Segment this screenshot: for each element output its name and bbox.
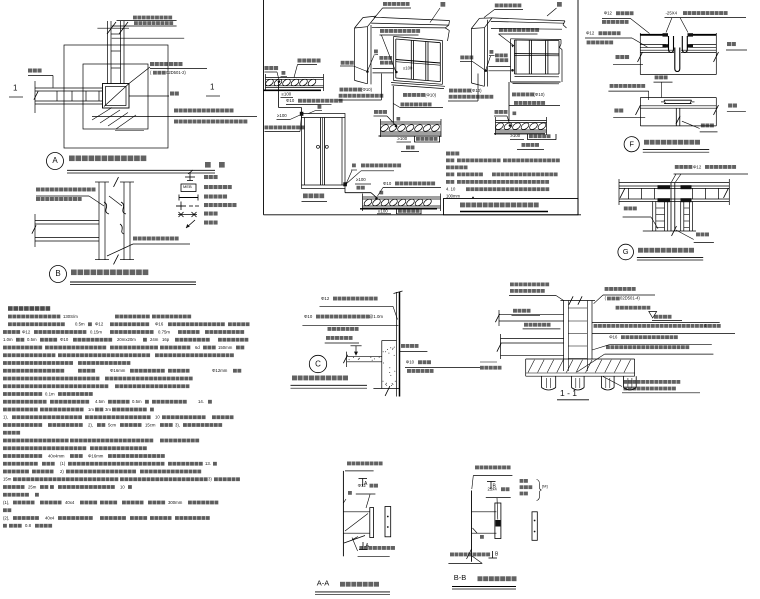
B-B free plate [532, 512, 537, 541]
1-1 label note3 [606, 345, 610, 349]
detail A outer foundation rectangle [64, 45, 168, 148]
svg-text:Φ12: Φ12 [586, 31, 595, 36]
B-B weld label [480, 535, 484, 539]
A-A title double underline [315, 591, 390, 593]
label weld w1 [374, 50, 378, 54]
svg-text:A-A: A-A [317, 579, 330, 588]
detail A hatch lines below column [92, 108, 112, 121]
window2 frame inner [515, 39, 560, 42]
F top: parapet slab edges [639, 33, 641, 75]
svg-text:Φ10: Φ10 [383, 181, 392, 186]
G beam end ticks [618, 179, 620, 205]
detail B rebar hooks [104, 202, 109, 214]
mid-left beam wall line [379, 135, 442, 137]
G beam rails [619, 185, 729, 187]
svg-text:MEB: MEB [183, 184, 192, 189]
right-mid ring beam ellipses [494, 122, 504, 131]
svg-text:6d: 6d [195, 345, 200, 350]
label method2 w2 line2 [514, 101, 518, 105]
window2 mullions [528, 40, 530, 74]
legend test point symbol [189, 172, 191, 181]
title box text: metal door/window equipotential detail [460, 203, 465, 208]
svg-text:100mm: 100mm [446, 193, 460, 198]
title circle A [47, 153, 64, 170]
label roof surface [614, 109, 618, 113]
svg-text:13.: 13. [205, 461, 211, 466]
detail A beam left end tick [34, 81, 36, 113]
svg-text:4.5m: 4.5m [95, 399, 105, 404]
label weld left beam [282, 71, 286, 75]
lower-right beam node dot [375, 197, 378, 200]
window1 mid rail [396, 60, 441, 64]
C title circle [309, 355, 326, 372]
C title text [292, 376, 297, 381]
svg-text:20mx20m: 20mx20m [117, 337, 136, 342]
F top: lower deep U loop [675, 48, 680, 72]
window1 column top slant [355, 18, 364, 29]
legend row4 text [204, 203, 208, 207]
svg-text:Φ10: Φ10 [60, 337, 69, 342]
G joint gap verticals [670, 183, 672, 232]
detail A ladder break slashes [107, 22, 116, 34]
mid-left ring beam ellipses [379, 123, 389, 132]
svg-text:3m: 3m [105, 407, 111, 412]
label expansion joint F [701, 124, 705, 128]
label cushion layer [170, 92, 174, 96]
frame notes title [446, 152, 450, 156]
F bottom: cover plate [664, 99, 692, 101]
G title text [638, 248, 643, 253]
label method1 w2 line2 [449, 95, 453, 99]
B-B title double underline [452, 586, 516, 588]
detail A top label line2 [134, 21, 138, 25]
window2 lintel lines [492, 18, 565, 21]
svg-text:Φ12: Φ12 [604, 11, 613, 16]
window2 sill lines [515, 76, 560, 78]
B-B bracket lines [472, 511, 497, 513]
1-1 right ground line [592, 322, 720, 324]
svg-text:(1),: (1), [3, 500, 9, 505]
C bottom break slash [385, 386, 390, 396]
svg-text:Φ12: Φ12 [693, 164, 702, 169]
mid-left beam end ticks [380, 119, 382, 137]
metal door outer frame [302, 114, 346, 189]
G left column below [652, 202, 654, 232]
detail B column rails [98, 182, 100, 260]
F bottom: break slashes [636, 105, 641, 115]
title B double underline [70, 281, 196, 283]
1-1 label bottom line2 [624, 387, 628, 391]
B-B wall bottom diagonal [467, 549, 472, 559]
svg-text:Φ10: Φ10 [304, 314, 313, 319]
svg-text:Φ16: Φ16 [155, 322, 164, 327]
legend row1 text [204, 175, 208, 179]
frame notes line4 [446, 180, 450, 184]
legend title [205, 162, 211, 168]
middle frame right border [577, 0, 579, 215]
svg-text:300mm: 300mm [168, 500, 183, 505]
svg-text:0.75m: 0.75m [158, 329, 170, 334]
right-mid ring beam rails [496, 120, 547, 122]
svg-text:(1): (1) [60, 461, 66, 466]
title A text [69, 156, 75, 162]
A-A bracket diagonal [345, 514, 368, 532]
svg-text:≥100: ≥100 [277, 113, 287, 118]
metal door inner lines [302, 117, 346, 119]
detail A foundation beam ladder rails [35, 87, 103, 89]
svg-text:16p: 16p [162, 337, 170, 342]
B-B right stacked labels [520, 479, 524, 483]
svg-text:1),: 1), [3, 415, 8, 420]
label concrete block right-mid [527, 134, 529, 140]
svg-text:10: 10 [155, 415, 160, 420]
G title circle [618, 244, 634, 260]
1-1 column rungs [568, 307, 587, 309]
window2 mid rail [515, 53, 560, 55]
detail A ladder rungs [111, 33, 121, 35]
label weld w2 [490, 50, 494, 54]
1-1 label long note1 [594, 324, 598, 328]
svg-text:15m: 15m [3, 477, 12, 482]
C concrete speckles [390, 375, 391, 376]
A-A bracket lines [343, 511, 370, 513]
svg-text:(Φ10): (Φ10) [471, 88, 483, 93]
svg-text:A: A [52, 156, 58, 165]
label weld mid-left [397, 117, 401, 121]
svg-text:(2),: (2), [3, 515, 9, 520]
label window frame connection w2 [499, 28, 503, 32]
detail B beam rails [35, 220, 99, 222]
window1 lintel right end break [445, 25, 449, 28]
lower-right ring beam rails [363, 196, 441, 198]
C wall top tick [394, 291, 403, 294]
window1 node dots [366, 70, 369, 73]
frame notes line2 [446, 166, 450, 170]
svg-text:0.5m: 0.5m [132, 399, 142, 404]
G label foundation beam [624, 207, 628, 211]
window1 lintel lines [374, 17, 450, 20]
title B text [71, 270, 77, 276]
B-B section mark bottom [489, 557, 498, 559]
detail A leader line y38 [112, 37, 185, 39]
door bottom-right weld node [343, 182, 347, 186]
svg-text:Φ12mm: Φ12mm [212, 368, 228, 373]
G bottom line [643, 230, 696, 232]
F bottom: joint gap lines [675, 108, 677, 126]
B-B free plate dots [534, 520, 536, 522]
window1 frame outer [394, 37, 443, 41]
left ring beam end ticks [265, 74, 267, 91]
svg-text:(Φ10): (Φ10) [534, 92, 546, 97]
svg-text:(Φ10): (Φ10) [361, 87, 373, 92]
detail A foundation beam rungs [56, 91, 58, 101]
title A double underline [67, 169, 215, 171]
detail B leader diagonals to hooks [89, 196, 104, 206]
svg-text:Φ10: Φ10 [406, 360, 415, 365]
svg-text:4. 10: 4. 10 [446, 186, 456, 191]
method1 w2 leader [448, 100, 478, 102]
legend MEB box symbol [181, 184, 196, 192]
label lightning to metal door connection [265, 126, 269, 130]
C slab lines [347, 355, 382, 357]
svg-text:[M]: [M] [542, 483, 548, 488]
label window w1 [441, 2, 446, 7]
svg-text:Φ10: Φ10 [286, 98, 295, 103]
svg-text:25x4: 25x4 [488, 487, 498, 492]
lower-right beam thick line [360, 208, 437, 210]
G label reserved joint [696, 233, 700, 237]
G right column below [680, 202, 682, 232]
label grounding wire left beam [265, 66, 269, 70]
svg-text:B: B [55, 269, 60, 278]
label method2 line1 [403, 93, 407, 97]
legend row5 text [204, 212, 208, 216]
1-1 label project datum [616, 306, 620, 310]
label indoor ground [513, 309, 517, 313]
method1 w1 leader [338, 99, 381, 101]
label diagonal rebar down conductor note [174, 109, 178, 113]
G column rungs [656, 207, 665, 209]
F bottom: slab lines [640, 97, 716, 99]
label weld lower beam [380, 191, 384, 195]
label reserved grounding terminal board [150, 62, 154, 66]
A-A label elevation of plate [347, 462, 351, 466]
middle frame left border [263, 0, 265, 215]
window2 column front face [470, 29, 472, 84]
detail B label top-left line2 [36, 197, 40, 201]
label F concealed line2 [587, 41, 591, 45]
frame notes line1 [446, 159, 450, 163]
detail A column section inner square [106, 87, 127, 106]
left beam node dot [278, 80, 281, 83]
window2 down leader [508, 82, 510, 121]
C label4 [326, 336, 330, 340]
svg-text:0.5m: 0.5m [27, 337, 37, 342]
label bottom slab rebar [524, 323, 528, 327]
F title text [644, 140, 649, 145]
svg-text:0.15m: 0.15m [90, 329, 102, 334]
window1 frame inner [396, 39, 441, 43]
svg-text:150mm: 150mm [218, 345, 233, 350]
detail A top label line1 [133, 16, 137, 20]
label plan view F [727, 42, 731, 46]
B-B wall vertical [471, 491, 473, 562]
B-B label protection layer bottom [450, 553, 454, 557]
label parapet F top [616, 55, 620, 59]
label grounding lead-out left [480, 366, 484, 370]
left ring beam rails [266, 77, 324, 79]
label weld right-mid [513, 112, 517, 116]
B-B flat steel black square [495, 520, 500, 527]
lower-right beam end ticks [362, 194, 364, 212]
door top-left weld node [300, 112, 304, 116]
label to embed parts w2 [495, 54, 499, 58]
1-1 footing inner line [526, 372, 635, 374]
metal door center mullion [320, 118, 322, 186]
window1 down leader [392, 86, 394, 122]
A-A free plate dots [387, 516, 389, 518]
F top: break slashes [638, 52, 643, 62]
svg-text:(Φ10): (Φ10) [425, 92, 437, 97]
svg-text:1: 1 [210, 83, 215, 92]
window2 node dots [485, 69, 488, 72]
label rc wall w2 [495, 4, 499, 8]
label grounding point w2 [460, 56, 464, 60]
label concrete block lower [396, 209, 398, 215]
svg-text:B-B: B-B [454, 573, 467, 582]
label parapet F bottom [655, 76, 659, 80]
svg-text:≥100: ≥100 [282, 92, 292, 97]
svg-text:3),: 3), [175, 422, 180, 427]
svg-text:≥100: ≥100 [378, 208, 388, 213]
1-1 left slab (indoor floor) [499, 314, 564, 316]
svg-text:15cm: 15cm [145, 422, 156, 427]
F top: parapet bottom line [640, 74, 716, 76]
svg-text:2),: 2), [88, 422, 93, 427]
label method1 w2 line1 [449, 89, 453, 93]
window1 slab to column [373, 68, 394, 70]
detail B label top-left line1 [36, 188, 40, 192]
svg-text:1m: 1m [88, 407, 94, 412]
svg-text:Φ16: Φ16 [609, 334, 618, 339]
G beam top cap line [619, 182, 729, 184]
detail A ladder top cap line [97, 27, 129, 29]
svg-text:14.: 14. [198, 399, 204, 404]
F bottom: side edges [639, 98, 641, 126]
F top: slab lines [640, 44, 666, 46]
construction notes title [8, 306, 13, 311]
svg-text:3): 3) [208, 477, 212, 482]
F title double underline [643, 149, 709, 151]
window2 column top slant [471, 18, 479, 28]
detail A column section outer square [103, 84, 130, 109]
svg-text:F: F [629, 139, 634, 148]
label method1 w1 line2 [339, 94, 343, 98]
legend row3 text [204, 195, 208, 199]
A-A wall vertical [342, 471, 344, 556]
C label5 clamp [401, 344, 405, 348]
svg-text:G: G [623, 247, 629, 256]
window2 wall corner edge [486, 20, 488, 87]
window2 lintel right break [563, 21, 565, 25]
window2 slab to column [489, 66, 511, 68]
svg-text:1 - 1: 1 - 1 [560, 388, 577, 398]
detail B label right [133, 237, 137, 241]
svg-text:1: 1 [13, 84, 18, 93]
door to lower beam connection path [344, 189, 346, 193]
svg-text:2): 2) [60, 469, 64, 474]
1-1 column top cap [560, 300, 595, 302]
label joint fill [357, 186, 361, 190]
legend air-termination rod symbol [186, 220, 195, 228]
left ring beam wall line thick [264, 89, 322, 91]
svg-text:-25X4: -25X4 [666, 10, 678, 15]
right-mid beam wall line [494, 133, 545, 135]
label brick wall [406, 146, 410, 150]
left ring beam rebar ellipses [264, 78, 274, 87]
legend row2 text [204, 185, 208, 189]
1-1 label top-left line2 [510, 289, 514, 293]
B-B section mark top [487, 481, 496, 483]
B-B label main rebar [475, 466, 479, 470]
label corner detail [522, 143, 526, 147]
svg-text:0.1m: 0.1m [45, 391, 55, 396]
title box rectangle [444, 199, 579, 215]
label method2 line2 [401, 103, 405, 107]
label outdoor ground [654, 315, 658, 319]
mid-left beam node dot [395, 125, 398, 128]
notes body lines [8, 315, 12, 319]
window1 sill lines [391, 83, 445, 87]
F bottom: wall bottom line [640, 125, 716, 127]
1-1 level mark triangle [649, 312, 657, 319]
svg-text:≥100: ≥100 [403, 65, 413, 70]
1-1 column rails [563, 301, 565, 372]
lower-right ring beam ellipses [363, 198, 373, 207]
label weld at door bottom [352, 164, 356, 168]
right-mid beam node dot [509, 124, 512, 127]
svg-text:25m: 25m [28, 484, 37, 489]
label to embed parts w1 [379, 56, 383, 60]
detail A diagonal through column square [104, 84, 129, 107]
detail A column rebar ladder vertical rails [107, 21, 109, 84]
detail B beam left tick [34, 214, 36, 247]
window1 wall corner edge [370, 25, 372, 84]
label method2 w2 line1 [512, 93, 516, 97]
G beam end slashes [620, 188, 625, 198]
label grounding point w1 [341, 61, 345, 65]
1-1 label top-left line1 [510, 283, 514, 287]
svg-text:40x4mm: 40x4mm [48, 453, 65, 458]
label window frame to equalizing ring w1 [380, 29, 384, 33]
C label3 [328, 327, 332, 331]
right-mid beam end ticks [495, 117, 497, 135]
F top: air-termination thick line [640, 34, 666, 36]
C wall bottom edge [373, 388, 399, 390]
mid-left ring beam rails [381, 121, 442, 123]
label exposed/concealed strip [610, 84, 614, 88]
label grounding wire mid-left [374, 110, 378, 114]
svg-text:1.0m: 1.0m [3, 337, 13, 342]
C parapet concrete outline [382, 340, 397, 342]
label lightning-door connection bottom [361, 164, 365, 168]
svg-text:0.8: 0.8 [25, 523, 32, 528]
svg-text:Φ12: Φ12 [22, 329, 31, 334]
1-1 piles [541, 376, 543, 387]
svg-text:Φ16mm: Φ16mm [110, 368, 126, 373]
svg-text:02D501-2): 02D501-2) [166, 70, 186, 75]
A-A section mark bottom [359, 549, 368, 551]
C title double underline [291, 384, 368, 386]
window1 mullions [410, 40, 412, 79]
A-A section mark top [359, 478, 368, 480]
label concrete block mid-left [414, 137, 416, 143]
frame notes line3 [446, 173, 450, 177]
svg-text:≥100: ≥100 [356, 177, 366, 182]
F top: clamp plates black [663, 33, 669, 36]
svg-text:Φ12: Φ12 [95, 322, 104, 327]
label lightning branch line [298, 59, 302, 63]
svg-text:02D501-4): 02D501-4) [620, 296, 640, 301]
svg-text:@1.0m: @1.0m [369, 314, 383, 319]
title circle B [50, 266, 67, 283]
C slab left tick [346, 352, 348, 367]
door knobs [317, 145, 320, 148]
label window w2 [557, 2, 562, 7]
legend row6 text [204, 221, 208, 225]
A-A end plate [370, 508, 374, 538]
1-1 left beam lines [501, 337, 564, 339]
